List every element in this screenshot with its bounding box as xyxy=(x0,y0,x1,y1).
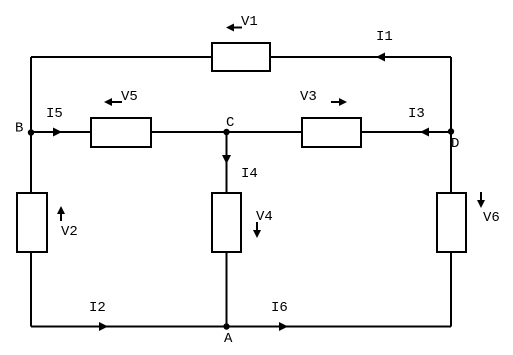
svg-text:D: D xyxy=(451,136,459,152)
svg-text:I3: I3 xyxy=(408,106,425,122)
node B junction dot xyxy=(28,129,34,135)
node A junction dot xyxy=(223,323,229,329)
svg-text:V2: V2 xyxy=(61,224,78,240)
svg-text:B: B xyxy=(15,121,23,137)
wire middle horizontal B to D xyxy=(31,131,451,133)
resistor box V2 xyxy=(17,193,47,252)
svg-text:V4: V4 xyxy=(256,209,273,225)
current arrow I4 on middle vertical wire xyxy=(222,155,231,164)
voltage arrow V5 (points left) xyxy=(104,98,122,106)
current arrow I5 on middle wire xyxy=(53,128,62,137)
current arrow I2 on bottom wire xyxy=(99,322,108,331)
current arrow I3 on middle wire xyxy=(420,128,429,137)
wire left vertical xyxy=(30,57,32,327)
wire middle vertical C to A xyxy=(226,132,228,327)
svg-text:V6: V6 xyxy=(483,210,500,226)
voltage arrow V6 (points down) xyxy=(477,192,485,208)
resistor box V1 xyxy=(212,43,270,71)
wire right vertical xyxy=(450,57,452,327)
svg-text:A: A xyxy=(224,331,233,347)
svg-text:V1: V1 xyxy=(241,14,258,30)
svg-text:I5: I5 xyxy=(46,106,63,122)
wire top (B-row top rail) xyxy=(31,56,451,58)
resistor box V4 xyxy=(212,193,241,252)
svg-text:I1: I1 xyxy=(376,29,393,45)
voltage arrow V3 (points right) xyxy=(331,98,347,106)
node D junction dot xyxy=(448,128,454,134)
svg-text:I2: I2 xyxy=(89,300,106,316)
current arrow I6 on bottom wire xyxy=(279,322,288,331)
resistor box V3 xyxy=(302,118,361,147)
svg-text:I6: I6 xyxy=(271,300,288,316)
voltage arrow V2 (points up) xyxy=(57,206,65,221)
svg-text:I4: I4 xyxy=(241,166,258,182)
resistor box V5 xyxy=(91,118,151,147)
current arrow I1 on top wire xyxy=(376,53,385,62)
svg-text:C: C xyxy=(226,115,234,131)
wire bottom xyxy=(31,326,451,328)
voltage arrow V4 (points down) xyxy=(253,222,261,238)
svg-text:V5: V5 xyxy=(121,89,138,105)
node C junction dot xyxy=(223,129,229,135)
voltage arrow V1 (points left) xyxy=(226,24,242,32)
svg-text:V3: V3 xyxy=(300,89,317,105)
resistor box V6 xyxy=(437,193,466,252)
